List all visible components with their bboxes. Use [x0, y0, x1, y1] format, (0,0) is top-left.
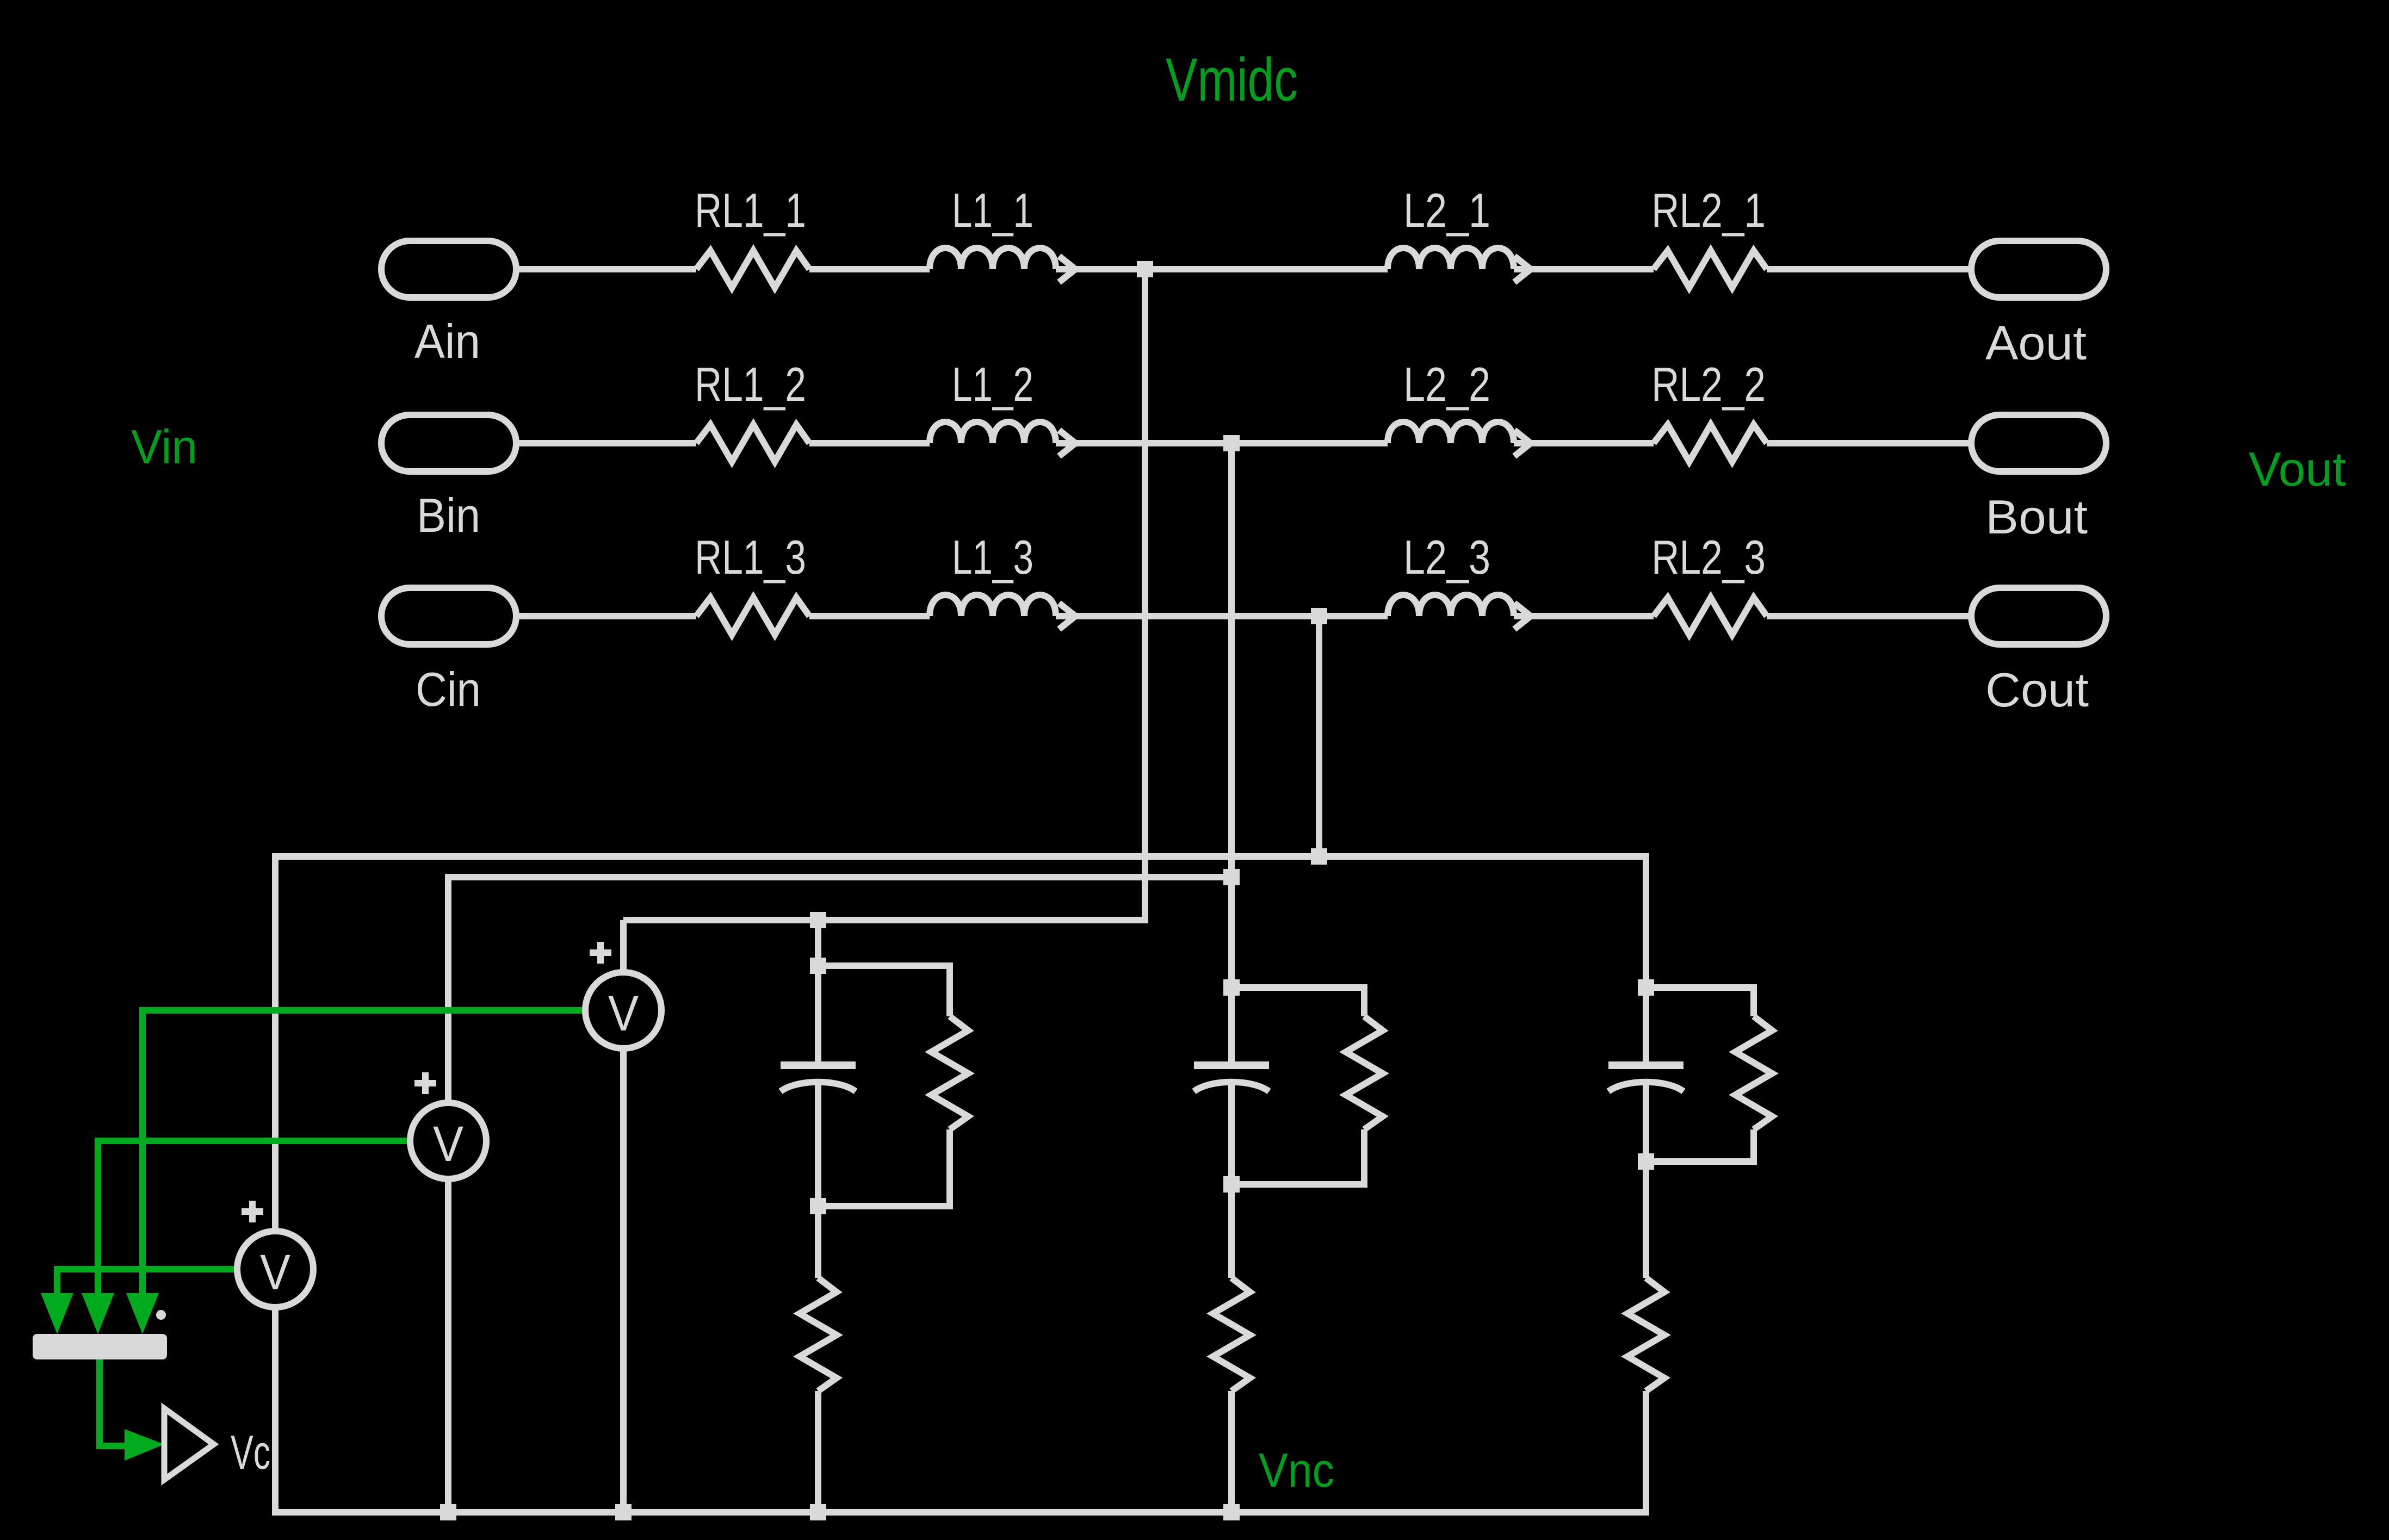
- svg-text:L1_2: L1_2: [952, 357, 1033, 411]
- svg-text:RL2_3: RL2_3: [1651, 530, 1766, 584]
- port Ain: [381, 241, 516, 297]
- wire RL2_3 to Cout port: [1767, 613, 1971, 619]
- inductor L1_2: [930, 422, 1056, 443]
- voltmeter V1: [585, 942, 661, 1048]
- resistor R1s (series): [800, 1278, 837, 1391]
- wire C3 bottom to series resistor R3s: [1643, 1084, 1649, 1278]
- buffer Vc (triangle): [164, 1408, 214, 1480]
- junction RC2 split: [1223, 979, 1240, 996]
- capacitor C2 plates: [1194, 1065, 1269, 1091]
- wire V1 bottom to rail: [620, 1047, 627, 1512]
- wire L1_2 to L2_2: [1056, 440, 1388, 446]
- port Bin: [381, 415, 516, 471]
- wire RL1_2 to L1_2: [809, 440, 930, 446]
- arrow green V1 into bus bar: [126, 1293, 159, 1334]
- svg-text:RL1_1: RL1_1: [695, 183, 806, 237]
- arrow green V3 into bus bar: [41, 1293, 73, 1334]
- wire Ain port to RL1_1: [516, 266, 696, 272]
- current arrow of L1_1: [1059, 256, 1075, 282]
- svg-text:RL1_2: RL1_2: [695, 357, 806, 411]
- svg-text:RL1_3: RL1_3: [695, 530, 806, 584]
- resistor RL1_3: [696, 598, 809, 635]
- wire RL2_1 to Aout port: [1767, 266, 1971, 272]
- svg-text:Bout: Bout: [1985, 490, 2088, 544]
- wire V2 bottom to rail: [445, 1177, 451, 1512]
- wire C2 bottom to series resistor R2s: [1228, 1084, 1235, 1278]
- wire RC1 to parallel resistor R1p top: [818, 966, 950, 1016]
- capacitor C3 plates: [1608, 1065, 1684, 1091]
- svg-text:Ain: Ain: [414, 314, 480, 368]
- resistor RL2_2: [1654, 425, 1767, 462]
- svg-text:Vout: Vout: [2249, 442, 2346, 496]
- wire green V3 probe: [57, 1269, 234, 1294]
- svg-text:Bin: Bin: [417, 488, 480, 542]
- inductor L2_2: [1388, 422, 1514, 443]
- wire RL1_1 to L1_1: [809, 266, 930, 272]
- wire bus B vertical from node B down to capacitor C2: [1228, 443, 1235, 1065]
- wire RL1_3 to L1_3: [809, 613, 930, 619]
- wire L1_1 to L2_1: [1056, 266, 1388, 272]
- junction RC1 on line3: [810, 912, 826, 928]
- svg-text:L1_3: L1_3: [952, 530, 1033, 584]
- junction RC1 bottom: [810, 1198, 826, 1214]
- wire Bin port to RL1_2: [516, 440, 696, 446]
- svg-text:RL2_1: RL2_1: [1651, 183, 1766, 237]
- resistor R2s (series): [1213, 1278, 1250, 1391]
- wire RC1 top down to capacitor C1: [815, 920, 821, 1065]
- junction RC1 split: [810, 958, 826, 974]
- junction R1s on rail: [810, 1504, 826, 1520]
- resistor RL1_1: [696, 251, 809, 288]
- port Cout: [1971, 588, 2106, 644]
- svg-text:V: V: [608, 986, 639, 1041]
- svg-text:L1_1: L1_1: [952, 183, 1033, 237]
- svg-text:V: V: [260, 1245, 290, 1300]
- wire L1_3 to L2_3: [1056, 613, 1388, 619]
- junction V1 on rail: [615, 1504, 632, 1520]
- wire R1p bottom back to RC1 node: [818, 1129, 950, 1206]
- voltmeter V3: [237, 1201, 313, 1307]
- junction bus C on line1: [1311, 848, 1327, 865]
- node dot right of arrows: [156, 1310, 166, 1320]
- wire green V2 probe: [98, 1141, 407, 1294]
- wire green bus bar to Vc buffer: [100, 1359, 125, 1446]
- wire L2_1 to RL2_1: [1514, 266, 1654, 272]
- wire RC2 to parallel resistor R2p top: [1231, 988, 1364, 1016]
- current arrow of L2_1: [1514, 256, 1531, 282]
- svg-text:Cin: Cin: [416, 662, 481, 716]
- node B junction: [1223, 435, 1240, 451]
- arrow green into Vc buffer: [125, 1429, 164, 1461]
- inductor L2_3: [1388, 595, 1514, 616]
- junction V2 on rail: [440, 1504, 456, 1520]
- svg-text:L2_1: L2_1: [1403, 183, 1490, 237]
- wire line1 from V3 up, right, and down into RC3 branch: [275, 856, 1646, 1232]
- junction line2 on bus B: [1223, 869, 1240, 885]
- wire R2p bottom back to RC2 node: [1231, 1129, 1364, 1184]
- voltmeter V2: [410, 1072, 486, 1179]
- svg-text:Vmidc: Vmidc: [1166, 46, 1298, 114]
- junction RC3 split: [1638, 979, 1654, 996]
- svg-text:L2_2: L2_2: [1403, 357, 1490, 411]
- svg-text:V: V: [433, 1116, 463, 1172]
- junction RC3 bottom: [1638, 1153, 1654, 1170]
- svg-text:Cout: Cout: [1985, 663, 2089, 717]
- node A junction: [1137, 261, 1153, 277]
- port Cin: [381, 588, 516, 644]
- junction RC2 bottom: [1223, 1176, 1240, 1193]
- svg-text:Vc: Vc: [231, 1425, 270, 1479]
- port Aout: [1971, 241, 2106, 297]
- resistor RL2_3: [1654, 598, 1767, 635]
- resistor R3p (parallel): [1735, 1016, 1772, 1129]
- wire R2s to bottom rail: [1228, 1391, 1235, 1512]
- wire bottom rail Vnc from V3 down, right, and up to R3s: [275, 1305, 1646, 1512]
- inductor L1_1: [930, 248, 1056, 269]
- resistor R2p (parallel): [1346, 1016, 1383, 1129]
- wire V1 top: [620, 920, 627, 973]
- svg-text:Vnc: Vnc: [1259, 1443, 1334, 1497]
- inductor L2_1: [1388, 248, 1514, 269]
- resistor RL2_1: [1654, 251, 1767, 288]
- wire green V1 probe: [143, 1010, 582, 1294]
- capacitor C1 plates: [781, 1065, 856, 1091]
- wire bus C vertical from node C: [1316, 616, 1322, 856]
- svg-text:L2_3: L2_3: [1403, 530, 1490, 584]
- current arrow of L2_3: [1514, 603, 1531, 629]
- junction R2s on rail: [1223, 1504, 1240, 1520]
- current arrow of L1_2: [1059, 430, 1075, 456]
- wire R1s to bottom rail: [815, 1391, 821, 1512]
- wire bus A from node A down and left to voltmeter V1 (line3): [623, 269, 1145, 920]
- port Bout: [1971, 415, 2106, 471]
- resistor RL1_2: [696, 425, 809, 462]
- arrow green V2 into bus bar: [82, 1293, 114, 1334]
- wire C1 bottom to series resistor R1s: [815, 1084, 821, 1278]
- wire L2_3 to RL2_3: [1514, 613, 1654, 619]
- resistor R1p (parallel): [931, 1016, 968, 1129]
- svg-text:Aout: Aout: [1985, 316, 2087, 370]
- wire line2 from V2 up and right to bus B: [448, 877, 1231, 1105]
- bus bar: [33, 1334, 167, 1359]
- resistor R3s (series): [1627, 1278, 1664, 1391]
- wire RL2_2 to Bout port: [1767, 440, 1971, 446]
- svg-text:RL2_2: RL2_2: [1651, 357, 1766, 411]
- node C junction: [1311, 608, 1327, 624]
- inductor L1_3: [930, 595, 1056, 616]
- wire Cin port to RL1_3: [516, 613, 696, 619]
- current arrow of L1_3: [1059, 603, 1075, 629]
- wire R3p bottom back to RC3 node: [1646, 1129, 1754, 1162]
- wire L2_2 to RL2_2: [1514, 440, 1654, 446]
- current arrow of L2_2: [1514, 430, 1531, 456]
- svg-text:Vin: Vin: [131, 420, 197, 474]
- wire RC3 to parallel resistor R3p top: [1646, 988, 1754, 1016]
